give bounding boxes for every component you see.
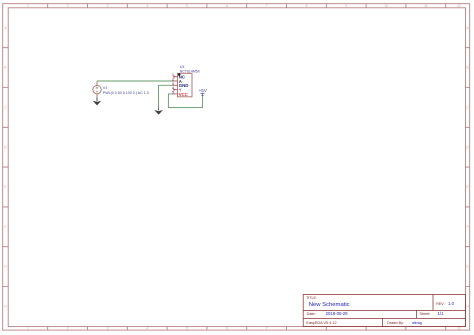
svg-text:2018-05-29: 2018-05-29: [326, 311, 349, 316]
svg-text:G: G: [4, 265, 7, 269]
IC U1 body: [178, 73, 192, 97]
svg-text:5: 5: [186, 327, 188, 331]
svg-text:11: 11: [424, 4, 428, 8]
svg-text:+5V: +5V: [199, 88, 208, 93]
pin 3 GND: [172, 82, 188, 88]
svg-text:5: 5: [186, 4, 188, 8]
svg-text:alkrag: alkrag: [412, 321, 422, 325]
ground GND2 below wire: [154, 109, 163, 115]
wire VCC net: U1 pin 5 to +5V flag: [168, 94, 202, 108]
svg-text:4: 4: [146, 4, 148, 8]
svg-text:1: 1: [27, 4, 29, 8]
svg-text:NC7S14M5X: NC7S14M5X: [180, 70, 201, 74]
pin 1 NC: [172, 73, 186, 79]
svg-text:5: 5: [172, 90, 174, 94]
svg-text:10: 10: [384, 4, 388, 8]
svg-text:3: 3: [107, 4, 109, 8]
svg-text:2: 2: [67, 327, 69, 331]
svg-text:PWL(0 0 50 5 100 0 ) AC 1 0: PWL(0 0 50 5 100 0 ) AC 1 0: [103, 91, 149, 95]
svg-text:8: 8: [306, 4, 308, 8]
ground GND1 below V1: [93, 97, 102, 105]
power flag +5V: [199, 88, 208, 97]
pin 4 Y: [172, 86, 182, 92]
svg-text:1.0: 1.0: [448, 301, 454, 306]
wire net A: V1 top to U1 pin 2: [97, 80, 174, 82]
svg-text:1/1: 1/1: [438, 311, 445, 316]
svg-text:Drawn By:: Drawn By:: [387, 321, 404, 325]
svg-text:U1: U1: [180, 65, 185, 69]
svg-text:Date:: Date:: [307, 312, 316, 316]
svg-text:Sheet:: Sheet:: [420, 312, 431, 316]
svg-text:12: 12: [457, 327, 461, 331]
svg-text:4: 4: [146, 327, 148, 331]
svg-text:2: 2: [67, 4, 69, 8]
svg-text:3: 3: [107, 327, 109, 331]
svg-text:TITLE:: TITLE:: [306, 296, 317, 300]
svg-text:7: 7: [266, 327, 268, 331]
pin 5 VCC: [172, 90, 189, 96]
svg-text:REV:: REV:: [436, 302, 444, 306]
voltage source V1: [93, 81, 101, 97]
svg-text:F: F: [4, 225, 6, 229]
svg-text:9: 9: [345, 4, 347, 8]
svg-text:VCC: VCC: [179, 92, 189, 97]
svg-text:12: 12: [457, 4, 461, 8]
svg-text:F: F: [467, 225, 469, 229]
svg-text:7: 7: [266, 4, 268, 8]
title block: [303, 294, 465, 326]
svg-text:EasyEDA V5.4.12: EasyEDA V5.4.12: [306, 321, 336, 325]
pin 2 A: [172, 78, 183, 84]
svg-text:New Schematic: New Schematic: [309, 302, 350, 308]
svg-text:V1: V1: [103, 86, 108, 90]
wire GND net: U1 pin 3 to ground: [159, 85, 175, 109]
svg-text:1: 1: [27, 327, 29, 331]
svg-text:G: G: [466, 265, 469, 269]
svg-text:6: 6: [226, 4, 228, 8]
svg-text:6: 6: [226, 327, 228, 331]
